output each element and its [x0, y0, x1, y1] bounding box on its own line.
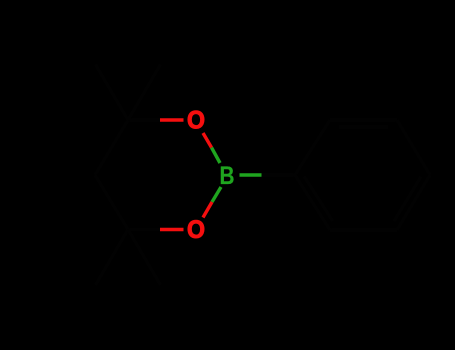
wire: bond C4-C5	[95, 120, 128, 175]
wire: phenyl double bond inner C6'=C1	[304, 176, 333, 221]
wire: bond B-C1 dark half	[262, 173, 296, 176]
wire: bond O1-C4 red half	[160, 118, 184, 121]
wire: phenyl C2-C3	[330, 118, 397, 121]
wire: bond C4-methyl up-left	[96, 65, 129, 121]
wire: phenyl C3-C4'	[397, 120, 430, 175]
wire: bond B-O2 red half	[203, 202, 212, 218]
wire: bond C5-C6	[95, 175, 128, 230]
wire: bond B-C1 green half	[240, 173, 262, 176]
svg-text:B: B	[220, 162, 235, 190]
wire: phenyl C6'-C1	[295, 175, 330, 230]
svg-text:O: O	[187, 107, 205, 135]
wire: bond C6-methyl down-left	[96, 230, 129, 286]
wire: bond B-O1 red half	[203, 133, 212, 148]
wire: bond B-O1 green half	[212, 148, 221, 164]
wire: bond B-O2 green half	[212, 187, 221, 202]
wire: phenyl C5'-C6'	[330, 228, 397, 231]
wire: bond O2-C6 dark half	[128, 228, 160, 231]
wire: phenyl double bond inner C4'=C5'	[394, 177, 421, 222]
wire: phenyl C1-C2	[295, 120, 330, 175]
wire: bond C4-methyl up-right	[128, 65, 161, 121]
wire: bond O1-C4 dark half	[128, 118, 160, 121]
wire: phenyl C4'-C5'	[397, 175, 430, 230]
wire: bond C6-methyl down-right	[128, 230, 161, 286]
wire: bond O2-C6 red half	[160, 228, 184, 231]
wire: phenyl double bond inner C2=C3	[339, 125, 388, 128]
svg-text:O: O	[187, 216, 205, 244]
